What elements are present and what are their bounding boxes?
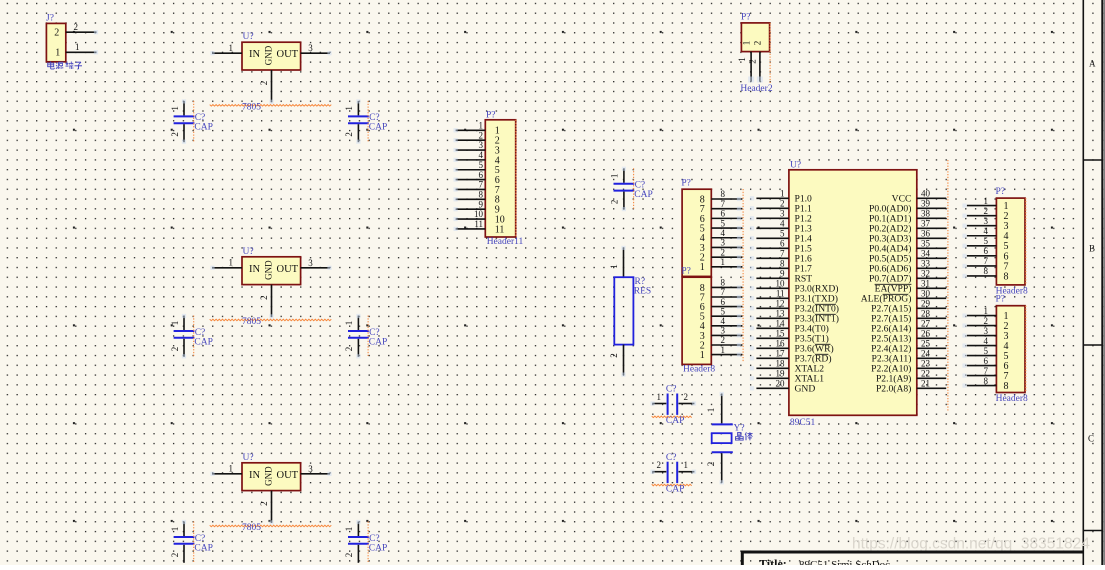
wire U4 pin39 (917, 199, 946, 209)
svg-text:29: 29 (921, 299, 931, 309)
svg-text:4: 4 (721, 316, 726, 326)
capacitor C1 CAP (170, 99, 213, 144)
zone letter C (1088, 434, 1094, 444)
svg-text:6: 6 (721, 297, 726, 307)
wire U4 pin12 (750, 299, 789, 311)
svg-text:P?: P? (996, 295, 1006, 305)
svg-text:1: 1 (55, 47, 60, 58)
wire P4 pin7 (962, 256, 996, 268)
wire P4 pin4 (962, 226, 996, 238)
wire U4 pin9 (750, 269, 789, 281)
svg-text:OUT: OUT (277, 49, 299, 60)
svg-text:2: 2 (780, 199, 785, 209)
sheet border column line (1082, 0, 1084, 565)
bus entry marker line P1 (515, 120, 517, 237)
wire J1 pin2 (66, 22, 98, 35)
svg-text:CAP: CAP (194, 543, 212, 553)
wire P1 pin9 (454, 199, 486, 211)
svg-text:C?: C? (666, 385, 677, 395)
capacitor C7 CAP (610, 167, 653, 212)
wire P3 pin5 (711, 306, 742, 318)
wire P3 pin6 (711, 297, 742, 309)
svg-text:15: 15 (776, 329, 786, 339)
svg-text:1: 1 (344, 106, 354, 111)
wire P1 pin4 (454, 150, 486, 162)
sheet outer border right (1101, 0, 1103, 565)
svg-text:C?: C? (635, 181, 646, 191)
svg-text:27: 27 (921, 319, 931, 329)
svg-text:7: 7 (721, 199, 726, 209)
svg-text:1: 1 (170, 106, 180, 111)
wire P2 pin7 (711, 199, 742, 211)
voltage regulator U2 7805 (242, 247, 301, 285)
svg-text:6: 6 (721, 209, 726, 219)
svg-text:C?: C? (195, 113, 206, 123)
wire U4 pin6 (750, 239, 789, 251)
svg-text:6: 6 (479, 170, 484, 180)
svg-text:21: 21 (921, 379, 930, 389)
svg-text:14: 14 (776, 319, 786, 329)
svg-text:C?: C? (195, 328, 206, 338)
wire P6 pin1 (737, 52, 754, 83)
wire P1 pin6 (454, 170, 486, 182)
svg-text:C?: C? (369, 328, 380, 338)
connector P1 Header11 (485, 111, 515, 237)
svg-text:10: 10 (776, 279, 786, 289)
wire U4 pin18 (750, 359, 789, 371)
svg-text:11: 11 (776, 289, 785, 299)
wire U2 pin2 GND (259, 285, 274, 319)
wire U1 pin3 OUT (301, 43, 332, 55)
wire P2 pin6 (711, 209, 742, 221)
wire U4 pin31 (917, 279, 946, 289)
svg-text:IN: IN (249, 470, 260, 481)
svg-text:1: 1 (229, 463, 234, 473)
svg-text:2: 2 (344, 553, 354, 558)
svg-text:10: 10 (474, 209, 484, 219)
svg-text:16: 16 (776, 339, 786, 349)
svg-text:20: 20 (776, 379, 786, 389)
svg-text:CAP: CAP (666, 416, 684, 426)
svg-text:32: 32 (921, 269, 930, 279)
svg-text:P?: P? (681, 179, 691, 189)
svg-text:25: 25 (921, 339, 931, 349)
svg-text:A: A (1089, 59, 1096, 69)
connector P4 Header8 (right) (996, 187, 1026, 285)
capacitor C5 CAP (170, 520, 213, 563)
wire P5 pin8 (962, 376, 996, 388)
wire U4 pin3 (750, 209, 789, 221)
svg-text:2: 2 (610, 200, 620, 205)
wire U4 pin8 (750, 259, 789, 271)
svg-text:1: 1 (344, 321, 354, 326)
wire P3 pin8 (711, 278, 742, 290)
svg-text:4: 4 (780, 219, 785, 229)
svg-text:7: 7 (780, 249, 785, 259)
svg-text:Title:: Title: (759, 557, 787, 566)
title block document name (799, 559, 890, 570)
svg-text:2: 2 (344, 132, 354, 137)
svg-text:2: 2 (259, 295, 269, 300)
wire P6 pin2 (748, 52, 763, 83)
wire U4 pin24 (917, 349, 946, 359)
title block left border (741, 551, 744, 565)
wire P1 pin8 (454, 190, 486, 202)
wire U4 pin38 (917, 209, 946, 219)
svg-text:7: 7 (984, 256, 989, 266)
svg-text:1: 1 (610, 174, 620, 179)
wire U4 pin21 (917, 379, 946, 389)
svg-text:3: 3 (780, 209, 785, 219)
capacitor C9 CAP (horizontal) (651, 453, 697, 494)
wire P2 pin5 (711, 218, 742, 230)
wire U2 pin3 OUT (301, 258, 332, 270)
svg-text:1: 1 (721, 345, 726, 355)
wire P3 pin4 (711, 316, 742, 328)
label Header11 (487, 237, 524, 247)
svg-text:CAP: CAP (369, 337, 387, 347)
wire U1 pin2 GND (259, 70, 274, 104)
svg-text:CAP: CAP (666, 484, 684, 494)
wire P5 pin6 (962, 356, 996, 368)
wire U4 pin17 (750, 349, 789, 361)
svg-text:1: 1 (700, 350, 705, 361)
svg-text:8: 8 (780, 259, 785, 269)
wire P1 pin11 (454, 219, 486, 231)
zone letter B (1089, 244, 1095, 254)
svg-text:1: 1 (780, 189, 785, 199)
svg-text:CAP: CAP (194, 123, 212, 133)
svg-text:C?: C? (369, 534, 380, 544)
svg-text:6: 6 (780, 239, 785, 249)
wire P2 pin1 (711, 257, 742, 269)
svg-text:RES: RES (634, 287, 651, 297)
svg-text:5: 5 (780, 229, 785, 239)
svg-text:1: 1 (984, 306, 989, 316)
bus entry line P4 (1025, 198, 1027, 285)
svg-text:17: 17 (776, 349, 786, 359)
svg-text:11: 11 (495, 224, 505, 235)
wire U4 pin11 (750, 289, 789, 301)
svg-text:2: 2 (748, 59, 758, 64)
svg-text:1: 1 (170, 321, 180, 326)
svg-text:6: 6 (984, 246, 989, 256)
svg-text:P?: P? (681, 267, 691, 277)
svg-text:7805: 7805 (242, 317, 261, 327)
svg-text:89C51 Srmi SchDoc: 89C51 Srmi SchDoc (799, 559, 890, 565)
svg-text:U?: U? (243, 32, 254, 42)
svg-text:1: 1 (657, 392, 662, 402)
capacitor C2 CAP (344, 99, 387, 144)
svg-text:U?: U? (243, 247, 254, 257)
svg-text:3: 3 (984, 216, 989, 226)
svg-text:Header8: Header8 (996, 394, 1028, 404)
svg-text:U?: U? (243, 453, 254, 463)
svg-text:8: 8 (984, 266, 989, 276)
wire U4 pin4 (750, 219, 789, 231)
wire P4 pin3 (962, 216, 996, 228)
resistor R1 RES (609, 246, 651, 377)
svg-text:5: 5 (984, 346, 989, 356)
svg-text:36: 36 (921, 229, 931, 239)
svg-text:2: 2 (344, 347, 354, 352)
svg-text:C?: C? (666, 453, 677, 463)
wire P4 pin6 (962, 246, 996, 258)
svg-text:2: 2 (170, 347, 180, 352)
svg-text:J?: J? (46, 14, 54, 24)
wire P4 pin1 (962, 196, 996, 208)
svg-text:8: 8 (984, 376, 989, 386)
bus entry line P6 (769, 23, 771, 83)
svg-text:7805: 7805 (242, 102, 261, 112)
svg-text:CAP: CAP (369, 123, 387, 133)
wire U4 pin33 (917, 259, 946, 269)
svg-text:GND: GND (264, 45, 274, 65)
svg-text:Header2: Header2 (740, 84, 772, 94)
svg-text:1: 1 (229, 257, 234, 267)
svg-text:2: 2 (170, 553, 180, 558)
wire U4 pin22 (917, 369, 946, 379)
value label 7805 of U3 (210, 523, 332, 533)
wire U4 pin32 (917, 269, 946, 279)
wire P1 pin3 (454, 140, 486, 152)
svg-text:22: 22 (921, 369, 930, 379)
zone tick A/B (1083, 159, 1102, 161)
svg-text:12: 12 (776, 299, 785, 309)
svg-text:34: 34 (921, 249, 931, 259)
svg-text:P?: P? (996, 187, 1006, 197)
watermark (852, 536, 1090, 553)
svg-text:1: 1 (737, 57, 747, 62)
svg-text:2: 2 (74, 22, 79, 32)
wire U4 pin15 (750, 329, 789, 341)
wire U3 pin2 GND (259, 491, 274, 525)
svg-text:1: 1 (609, 264, 619, 269)
svg-text:40: 40 (921, 189, 931, 199)
wire J1 pin1 (66, 42, 98, 55)
svg-text:R?: R? (635, 277, 646, 287)
svg-text:2: 2 (984, 206, 989, 216)
bus line middle headers (742, 189, 744, 362)
connector P2 Header8 (middle) (681, 179, 711, 277)
wire P4 pin5 (962, 236, 996, 248)
connector P3 Header8 (middle) (681, 267, 711, 365)
crystal Y1 (jingti) (706, 392, 744, 485)
svg-text:3: 3 (308, 258, 313, 268)
svg-text:1: 1 (984, 196, 989, 206)
svg-text:4: 4 (984, 226, 989, 236)
svg-text:7: 7 (479, 180, 484, 190)
svg-text:CAP: CAP (369, 543, 387, 553)
svg-text:5: 5 (479, 160, 484, 170)
svg-text:5: 5 (984, 236, 989, 246)
svg-text:7805: 7805 (242, 523, 261, 533)
svg-text:35: 35 (921, 239, 931, 249)
wire U4 pin37 (917, 219, 946, 229)
svg-text:1: 1 (229, 43, 234, 53)
connector J1 power terminal (46, 14, 66, 62)
svg-text:9: 9 (780, 269, 785, 279)
svg-text:8: 8 (479, 190, 484, 200)
svg-text:1: 1 (700, 262, 705, 273)
svg-text:2: 2 (684, 392, 689, 402)
svg-text:2: 2 (170, 132, 180, 137)
svg-text:2: 2 (984, 316, 989, 326)
wire P5 pin4 (962, 336, 996, 348)
wire U4 pin34 (917, 249, 946, 259)
svg-text:C?: C? (195, 534, 206, 544)
label Header8 (middle) (683, 365, 715, 375)
label dianyuanduanzi (power terminal) (48, 62, 82, 70)
svg-text:4: 4 (721, 228, 726, 238)
svg-text:B: B (1089, 244, 1095, 254)
capacitor C3 CAP (170, 314, 213, 359)
svg-text:18: 18 (776, 359, 786, 369)
svg-text:CAP: CAP (194, 337, 212, 347)
wire P3 pin7 (711, 287, 742, 299)
wire U4 pin1 (750, 189, 789, 201)
connector P5 Header8 (right) (996, 295, 1026, 393)
window edge band (1103, 0, 1105, 565)
svg-text:C?: C? (369, 113, 380, 123)
svg-text:GND: GND (264, 260, 274, 280)
svg-text:2: 2 (752, 41, 762, 46)
wire U4 pin29 (917, 299, 946, 309)
svg-text:Header11: Header11 (487, 237, 524, 247)
wire U4 pin14 (750, 319, 789, 331)
wire U4 pin30 (917, 289, 946, 299)
wire P2 pin8 (711, 189, 742, 201)
svg-text:IN: IN (249, 49, 260, 60)
svg-text:P?: P? (741, 13, 751, 23)
bus line right of U4 (947, 160, 949, 412)
wire U4 pin36 (917, 229, 946, 239)
wire P1 pin2 (454, 130, 486, 142)
zone tick C/D (1083, 530, 1102, 532)
wire P2 pin3 (711, 238, 742, 250)
svg-text:8: 8 (721, 278, 726, 288)
svg-text:39: 39 (921, 199, 931, 209)
svg-text:89C51: 89C51 (790, 418, 816, 428)
microcontroller U4 89C51 (789, 160, 917, 415)
wire P2 pin4 (711, 228, 742, 240)
svg-text:6: 6 (984, 356, 989, 366)
label 89C51 (790, 418, 816, 428)
wire P3 pin1 (711, 345, 742, 357)
wire P3 pin2 (711, 335, 742, 347)
svg-text:2: 2 (721, 335, 726, 345)
svg-text:Y?: Y? (734, 424, 745, 434)
svg-text:37: 37 (921, 219, 931, 229)
svg-text:Header8: Header8 (683, 365, 715, 375)
svg-text:13: 13 (776, 309, 786, 319)
svg-text:2: 2 (259, 81, 269, 86)
wire U4 pin19 (750, 369, 789, 381)
wire U4 pin28 (917, 309, 946, 319)
svg-text:1: 1 (742, 41, 752, 46)
wire P4 pin8 (962, 266, 996, 278)
wire U4 pin27 (917, 319, 946, 329)
svg-text:2: 2 (479, 130, 484, 140)
wire P4 pin2 (962, 206, 996, 218)
wire U4 pin7 (750, 249, 789, 261)
svg-text:8: 8 (1004, 381, 1009, 392)
svg-text:23: 23 (921, 359, 931, 369)
wire U4 pin23 (917, 359, 946, 369)
svg-text:19: 19 (776, 369, 786, 379)
svg-text:9: 9 (479, 199, 484, 209)
svg-text:38: 38 (921, 209, 931, 219)
svg-text:IN: IN (249, 264, 260, 275)
svg-text:1: 1 (706, 408, 716, 413)
svg-text:U?: U? (790, 160, 801, 170)
wire P5 pin1 (962, 306, 996, 318)
wire P5 pin2 (962, 316, 996, 328)
title block Title text (759, 557, 787, 570)
svg-text:1: 1 (344, 527, 354, 532)
svg-text:2: 2 (721, 247, 726, 257)
wire U4 pin10 (750, 279, 789, 291)
voltage regulator U3 7805 (242, 453, 301, 491)
svg-text:7: 7 (984, 366, 989, 376)
svg-text:OUT: OUT (277, 470, 299, 481)
wire U4 pin26 (917, 329, 946, 339)
svg-text:4: 4 (984, 336, 989, 346)
svg-text:33: 33 (921, 259, 931, 269)
wire U1 pin1 IN (210, 43, 242, 56)
svg-text:3: 3 (479, 140, 484, 150)
svg-text:C: C (1088, 434, 1094, 444)
svg-text:8: 8 (1004, 271, 1009, 282)
label Header8 of P5 (996, 394, 1028, 404)
svg-text:2: 2 (706, 462, 716, 467)
wire U4 pin16 (750, 339, 789, 351)
svg-text:3: 3 (984, 326, 989, 336)
connector P6 Header2 (741, 13, 770, 52)
svg-text:2: 2 (259, 501, 269, 506)
wire U2 pin1 IN (210, 257, 242, 270)
svg-text:1: 1 (170, 527, 180, 532)
svg-text:2: 2 (54, 28, 59, 39)
capacitor C8 CAP (horizontal) (651, 385, 697, 426)
bus entry line P5 (1025, 306, 1027, 393)
svg-text:1: 1 (684, 460, 689, 470)
svg-text:31: 31 (921, 279, 930, 289)
value label 7805 of U1 (210, 102, 332, 112)
zone letter A (1089, 59, 1096, 69)
wire U4 pin2 (750, 199, 789, 211)
wire U4 pin40 (917, 189, 946, 199)
wire U4 pin35 (917, 239, 946, 249)
label Header8 of P4 (996, 287, 1028, 297)
svg-text:https://blog.csdn.net/qq_38351: https://blog.csdn.net/qq_38351824 (852, 536, 1090, 553)
wire U4 pin20 (750, 379, 789, 391)
wire P1 pin10 (454, 209, 486, 221)
svg-text:7: 7 (721, 287, 726, 297)
svg-text:OUT: OUT (277, 264, 299, 275)
wire P1 pin5 (454, 160, 486, 172)
svg-text:24: 24 (921, 349, 931, 359)
title block top border (741, 551, 1084, 554)
svg-text:CAP: CAP (634, 190, 652, 200)
svg-text:3: 3 (721, 238, 726, 248)
svg-text:3: 3 (308, 464, 313, 474)
svg-text:11: 11 (474, 219, 483, 229)
wire P2 pin2 (711, 247, 742, 259)
svg-text:5: 5 (721, 306, 726, 316)
svg-text:1: 1 (721, 257, 726, 267)
wire P5 pin7 (962, 366, 996, 378)
